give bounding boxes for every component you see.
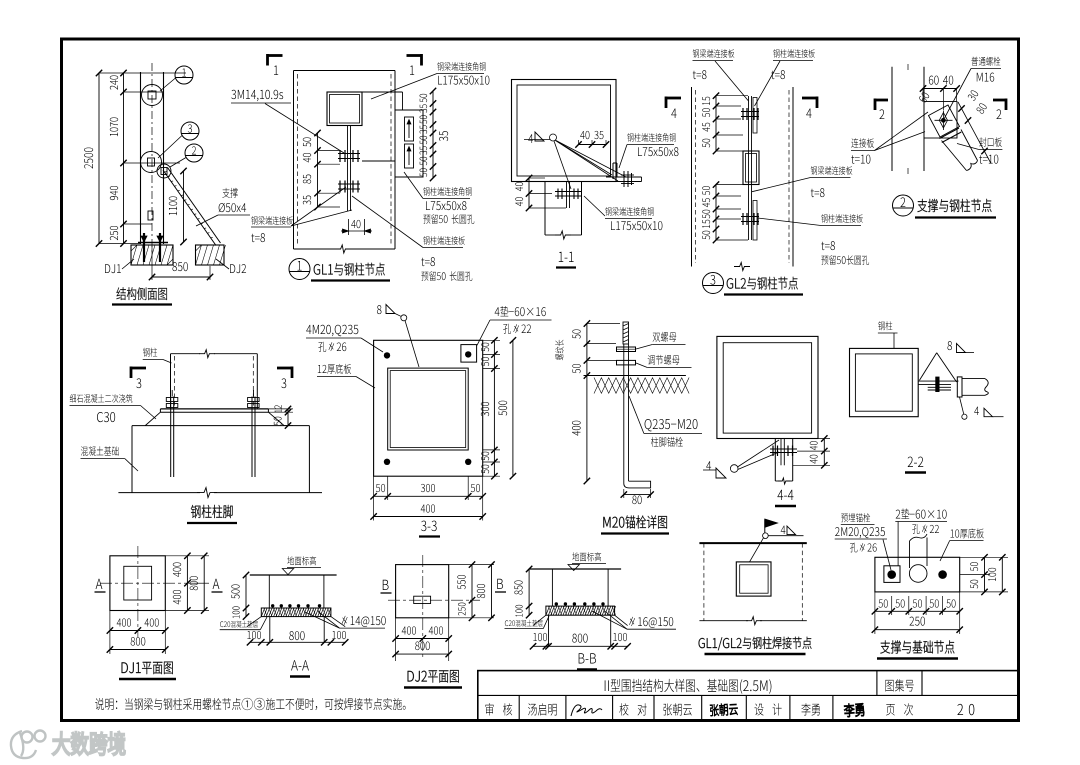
center bar GL2 [748,96,750,240]
label yumai maoshuan [841,513,870,522]
caption detail 3 [703,273,724,294]
bolt 4-4 [770,448,797,450]
dim 2500 vertical [98,73,100,244]
DJ2 bottom dims [396,638,449,640]
cell shen he [485,703,512,715]
left dims AA [245,575,247,617]
angle and plate right [612,163,614,179]
column above base [170,354,172,409]
DJ1 outer square [110,556,165,611]
column band GL2 [691,87,693,267]
label L175 top right [437,62,485,71]
washer square brace [884,566,900,583]
DJ1 A marks [96,579,103,589]
square column 4-4 [717,336,818,438]
post walls AA [268,575,270,608]
signature 3 [844,703,864,718]
label phi16 BB [629,617,673,628]
caption DJ1 [122,662,173,674]
DJ2 right chain2 [491,565,493,618]
DJ1 right chain2 [203,556,205,611]
cut mark 4 left [665,97,681,100]
DJ1 inner square [124,566,152,600]
foundation walls BB [548,615,550,646]
gusset square plate [327,92,362,126]
bolt lower GL2 [741,216,759,218]
left dim chain M20 [586,324,588,482]
detail bubble 2 [185,144,203,162]
right dim chain GL1 [432,91,434,178]
cell ye ci [886,703,913,715]
label gangzhu 2-2 [878,321,892,330]
cut mark 4 right [802,97,818,100]
weld joint dashed edges [703,543,705,621]
weld flag joint [764,519,766,533]
grout wedge [145,412,160,425]
tube 2-2 [962,378,985,380]
tube brace [909,541,911,568]
washer square 3-3 [461,345,477,363]
caption A-A [291,660,309,670]
caption brace base [880,640,954,653]
DJ2 right chain1 [471,565,473,618]
cut mark 3 left base [130,367,146,370]
bolt symbol det2 [941,118,946,123]
left dims BB [528,569,530,615]
title block verticals top [876,671,878,696]
threaded top M20 [623,322,629,344]
brace base plate [875,557,960,592]
foundation DJ1 hatched [131,245,173,265]
bolt upper GL2 [741,111,759,113]
cap band BB [546,606,615,615]
bolt hook M20 [624,481,651,488]
section 1-1 square column [512,80,617,182]
column square 3-3 [388,368,469,450]
label L75 right [423,187,471,196]
cell 20 [957,704,974,715]
cut mark 2 left det2 [874,99,888,102]
brace tube det2 [942,141,967,171]
brace member [163,170,216,246]
brace right chain2 [1001,557,1003,592]
DJ2 B marks [383,580,389,590]
ground line AA [250,574,337,576]
dim 40 bottom [351,220,360,228]
bar below 4-4 [780,439,782,466]
gusset plate det2 [924,102,957,139]
brace right chain1 [984,557,986,592]
dim chain 240/1070/940/250 [123,73,125,244]
node symbol at column top [142,85,163,106]
detail bubble 1 [175,66,193,84]
cell jiao dui [619,703,646,715]
break GL2 bottom [734,263,750,271]
signature 1 [571,705,602,716]
left dim chain 50/40/85/35 [317,133,319,207]
cell tang qiming [528,703,557,715]
caption DJ2 [408,670,459,682]
dim 80 M20 [624,494,651,496]
label Q235-M20 [645,419,698,431]
weld joint square [736,562,771,596]
label putong luoshuan [971,57,1000,66]
title tujihao [885,679,913,691]
weld symbol 4 in 1-1 [528,134,533,143]
label DJ2 [230,264,246,273]
detail bubble 3 [181,122,199,140]
left dim chain GL2 upper [715,96,717,151]
label right gangzhu GL2 [821,214,863,223]
label gangliangduan lianjieban GL1 [251,216,293,225]
ground line BB [529,568,621,570]
bolts 3-3 [384,352,390,358]
plate lower GL2 [753,201,757,241]
foundation DJ2 hatched [196,245,225,265]
fan leader lines [555,140,612,175]
label luowenchang [555,340,564,360]
caption detail 1 [289,259,310,280]
post walls BB [551,569,553,606]
splay lines BB [533,615,546,625]
bolt set upper [338,153,360,155]
caption detail 2 [893,195,914,216]
column face GL1 [294,70,396,72]
right dim chain2 3-3 [512,340,514,476]
adjust nut M20 [617,360,636,365]
label C20 BB [505,620,543,627]
label L75 in 1-1 [627,133,675,142]
square column 2-2 [850,348,919,416]
label 4dian 60x16 [495,306,546,316]
cut mark 1 top-left [267,54,283,57]
label 2dian 60x10 [896,508,947,518]
DJ1 bottom dims [110,630,165,632]
label dimian biaogao AA [287,556,316,565]
brace bottom dims [875,610,960,612]
label gangzhu base [143,348,157,357]
title block verticals bottom [518,695,520,720]
weld mark 8 2-2 [947,341,952,350]
weld mark 8 3-3 [377,305,382,314]
beam section GL2 [743,151,759,185]
watermark text [53,732,125,755]
weld joint top line [699,542,806,544]
label 10hou diban [951,528,984,538]
DJ2 centerlines [388,599,470,601]
rotated plate det2 [929,105,960,137]
note shuoming [95,698,405,710]
connection 2-2 [918,380,958,382]
cell zhang chaoyun [663,703,691,715]
label C20 AA [220,621,258,628]
dim 40 35 in 1-1 [580,131,589,139]
title main [605,679,772,694]
weld joint bottom [699,620,748,622]
label DJ1 [105,264,121,273]
plate upper GL2 [753,98,757,134]
caption M20 [603,515,667,528]
base plate [160,408,268,410]
label zhicheng brace [222,188,238,198]
foundation walls AA [269,617,271,643]
anchor bolt right base [251,397,253,478]
dim 1100 [183,171,185,242]
concrete foundation base [132,425,309,427]
column below 4-4 [774,439,776,482]
label top gangzhu GL2 [773,49,815,58]
bottom dims BB [533,645,628,647]
caption 1-1 [559,252,574,262]
dark bolt 2-2 [935,377,939,392]
column below 1-1 [544,182,546,236]
cap band AA [261,608,331,617]
label gangzhuduan lianjieban GL1 [423,236,465,245]
caption 3-3 [421,521,437,532]
vertical connection bar [347,126,349,212]
right dim 40 40 4-4 [823,439,825,466]
beam flange lines [362,91,403,93]
splay lines AA [247,617,261,627]
right dim chain1 3-3 [493,340,495,476]
node symbol at column mid [141,152,162,173]
bolt shaft M20 [623,344,625,481]
small plate mark on column [148,211,153,220]
cut mark 3 right base [277,367,293,370]
cap plate 2-2 [957,377,962,397]
weld lines 2-2 [919,353,936,381]
label 3M14 [231,90,283,101]
dim 850 [172,262,187,271]
dim 60 40 det2 [929,76,953,85]
label right gangliang GL2 [811,166,853,175]
DJ2 slot [414,596,431,603]
stud dots BB [555,602,558,605]
label tiaojieluomu [648,355,680,365]
brace node symbol [157,164,171,178]
ground line M20 [584,375,686,377]
DJ2 outer square [396,565,449,618]
column band det2 [891,67,893,171]
angle plate with slots [395,110,423,177]
weld mark 4-4 [706,461,711,470]
bar and bolt below [566,182,568,209]
double nut M20 [617,347,636,352]
caption 2-2 [908,457,924,467]
anchor bolt left base [170,397,172,478]
bolt right 1-1 [623,171,625,187]
earth hatch M20 [594,378,602,394]
dim 50 12 base [287,409,289,426]
bolt right brace [938,570,947,579]
DJ1 centerlines [100,582,194,584]
label phi14 AA [342,616,386,627]
caption weld joint [699,637,812,651]
label dimian biaogao BB [572,552,601,561]
label 12hou diban [318,364,351,374]
anchor bolts at column base [143,233,145,262]
left dim chain GL2 lower [715,185,717,240]
base plate 3-3 [374,340,483,476]
caption B-B [579,653,596,663]
drawing border frame [62,39,1019,721]
left dim 40 40 1-1 [528,178,530,208]
label hunningtu jichu [81,446,119,456]
label 4M20 3-3 [306,325,358,336]
signature 2 [710,703,738,716]
label lianjieban det2 [851,138,874,148]
cell she ji [754,703,781,715]
label shuangluomu [653,332,677,342]
stud dots AA [271,604,274,607]
cut mark 2 right det2 [993,99,1007,102]
steel column (side view) [140,72,142,244]
title block frame [478,671,1019,721]
label xishi hunningtu [70,394,133,403]
label top gangliang GL2 [693,49,735,58]
label L175 in 1-1 [605,207,653,216]
cap plate det2 [940,128,960,139]
watermark logo [11,731,46,759]
cell li yong [801,703,819,715]
caption jiegou cemian tu [116,287,166,300]
dim 30 80 det2 [958,102,991,164]
weld mark 4 2-2 [960,397,964,414]
caption 4-4 [777,490,793,500]
caption gangzhu zhujiao [191,505,233,518]
DJ1 right chain1 [186,556,188,611]
cut mark 1 top-right [407,54,423,57]
label fengkouban det2 [979,137,1002,147]
bolt set lower [338,183,360,185]
bottom dims AA [250,641,345,643]
bolt left brace [887,570,896,579]
bottom dims 3-3 [374,495,483,497]
